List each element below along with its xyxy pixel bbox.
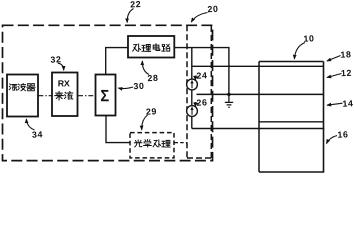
LED / source 26: [187, 106, 198, 117]
LED chain wire: [191, 48, 193, 129]
RX box: [52, 73, 78, 117]
glyph 波: [18, 84, 26, 91]
wire RX to summer: [78, 95, 95, 97]
enclosure box 22 (dashed): [3, 25, 213, 160]
ground: [225, 93, 233, 108]
optical processing box 29 (光学处理, dashed): [130, 133, 174, 158]
svg-text:14: 14: [342, 98, 354, 109]
wire filter to RX: [39, 95, 52, 97]
svg-text:10: 10: [303, 33, 315, 44]
filter box (滤波器): [7, 75, 38, 117]
LED / source 24: [187, 79, 198, 90]
svg-text:18: 18: [340, 49, 352, 60]
wire processing circuit to rail / down to ground node: [175, 48, 229, 95]
layered stack: left edge: [258, 62, 260, 173]
block 16 bottom: [259, 171, 324, 173]
svg-text:12: 12: [341, 68, 353, 79]
glyph 器: [27, 84, 35, 91]
wire summer to processing circuit: [106, 48, 128, 75]
14 bottom line: [259, 121, 324, 123]
svg-text:RX: RX: [58, 78, 70, 88]
summer box 30 (sigma): [96, 75, 116, 116]
glyph 处: [133, 44, 141, 51]
glyph 流: [65, 92, 73, 100]
bottom rail (top of block 16): [192, 128, 324, 130]
svg-text:24: 24: [196, 70, 208, 81]
glyph 理: [142, 44, 151, 51]
glyph 理: [162, 140, 170, 147]
layered stack: right edge: [323, 62, 325, 173]
glyph 滤: [9, 84, 17, 91]
svg-text:22: 22: [130, 0, 142, 9]
dashed link optical processing to box 20: [175, 142, 188, 144]
glyph 学: [144, 140, 152, 147]
processing circuit box 28 (处理电路): [128, 36, 174, 58]
layer 18 top line: [259, 61, 324, 63]
surface rail (top of layer 12): [192, 65, 324, 67]
glyph 来: [55, 92, 63, 100]
wire summer to optical processing: [106, 116, 130, 143]
mid rail (12/14 boundary): [197, 93, 324, 95]
svg-text:20: 20: [207, 4, 219, 15]
svg-text:30: 30: [133, 81, 145, 92]
svg-text:34: 34: [32, 129, 44, 140]
glyph 路: [162, 44, 170, 51]
glyph 光: [134, 140, 141, 147]
svg-text:Σ: Σ: [100, 87, 109, 105]
svg-text:16: 16: [337, 129, 349, 140]
glyph 电: [153, 44, 160, 51]
glyph 处: [153, 140, 161, 147]
enclosure box 20 (dashed): [187, 25, 211, 158]
svg-text:26: 26: [196, 97, 208, 108]
